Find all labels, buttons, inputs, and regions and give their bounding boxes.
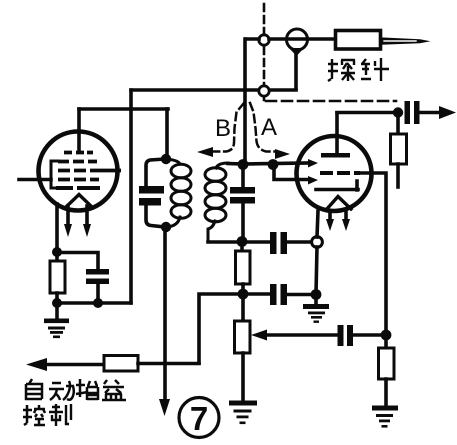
node junction2 [268, 159, 279, 170]
wire: bottom rail to left vertical [57, 301, 131, 305]
probe body [336, 31, 381, 50]
V2 plate [335, 113, 339, 153]
capacitor C4 [270, 232, 277, 254]
node jack J2 (open circle, return path) [259, 86, 269, 96]
label circled 7 [179, 398, 219, 438]
pin arrow lower [308, 176, 318, 185]
dashed path B with arrow [212, 103, 244, 152]
wire: run2 left corner down to AGC line [199, 294, 243, 363]
probe connector circle [287, 29, 308, 50]
resistor R2 [240, 241, 244, 251]
wire: run2 to cap C5 [243, 292, 270, 296]
node junction run1 [237, 236, 248, 247]
wire: junction to tube pins [243, 163, 308, 164]
wire: C5 to ground node [285, 293, 316, 297]
V1 grid row 5 [56, 186, 100, 190]
capacitor C1 (cathode bypass) [86, 269, 109, 275]
node jack J1 (open circle, probe tip path) [259, 35, 269, 45]
label 控制 [23, 404, 71, 426]
resistor R4 [384, 335, 388, 348]
svg-text:B: B [215, 115, 231, 142]
wire: coil bottom to junction [208, 240, 237, 244]
node junction plate load [393, 107, 403, 117]
V2 filament lead 2 with arrow [344, 210, 348, 221]
wire: connector ground drop [294, 55, 298, 89]
tube V1 envelope [39, 132, 118, 211]
node jack J3 (open circle) [312, 237, 323, 248]
ground G3 [229, 401, 257, 425]
pot wiper arrow [251, 330, 267, 341]
V1 filament lead with arrow [66, 206, 70, 226]
node junction center grid [238, 159, 249, 170]
inductor L2 (grid coil) [216, 163, 228, 168]
V1 grid row 2 [58, 160, 97, 164]
wire: drop to tank top [165, 109, 169, 158]
wire: cathode to bypass cap [57, 253, 98, 270]
resistor R3 (potentiometer) [241, 294, 245, 321]
resistor R5 (plate load) [396, 113, 400, 134]
pin arrow upper [308, 159, 318, 168]
wire: V1 plate lead [77, 109, 81, 151]
wire: wiper to cap C6 [266, 333, 338, 337]
label 自动增益 [26, 379, 126, 400]
inductor L1 (tank coil) [166, 159, 180, 164]
V2 filament V [326, 197, 351, 211]
node junction R1 bottom [52, 298, 62, 308]
wire: output with arrow [419, 111, 441, 115]
probe connector contact wedge [289, 48, 304, 56]
V2 cathode element [316, 181, 358, 190]
wire: V1 plate supply [79, 107, 168, 111]
V1 left bracket [51, 161, 58, 188]
wire: junction to coil top [228, 162, 243, 166]
wire: plate to output cap [337, 111, 397, 115]
wire: run1 to cap C4 [242, 240, 270, 244]
svg-text:7: 7 [190, 400, 208, 437]
wire: V1 cathode lead down [55, 204, 59, 252]
wire: jack J3 down [316, 247, 317, 294]
ground G2 [314, 294, 318, 305]
V1 grid row 3 with right stub [58, 169, 121, 173]
wire: long horizontal return to left rail [131, 88, 296, 92]
wire: C6 to junction [352, 333, 386, 337]
capacitor C3 (grid) [241, 164, 245, 187]
probe needle [381, 37, 431, 45]
wire: J1 to corner and probe connector [246, 37, 336, 41]
wire: left vertical return rail [129, 90, 133, 303]
capacitor C6 [338, 325, 344, 346]
wire: tank bottom down with arrow [163, 227, 167, 402]
V2 filament lead with arrow [328, 211, 332, 221]
wire: dashed vertical switch line top [263, 4, 266, 100]
wire: junction2 drop to lower pin [274, 164, 309, 180]
V1 plate row [64, 151, 93, 155]
V1 filament lead 2 with arrow [85, 206, 89, 226]
capacitor C7 (output) [405, 101, 411, 124]
wire: V2 cathode lead to jack J3 [317, 211, 318, 237]
ground G4 [372, 406, 398, 428]
ground G1 [55, 303, 59, 319]
node junction run2 [238, 289, 249, 300]
dashed path A with arrow [250, 103, 275, 152]
V1 cathode filament V [66, 195, 92, 208]
node junction V1 cathode [52, 247, 62, 257]
label 探针 (probe) [328, 58, 389, 81]
wire: left input stub to V1 [19, 178, 51, 182]
capacitor C5 [270, 284, 277, 305]
node junction C1 bottom [93, 298, 103, 308]
wire: vertical from corner down to node junction [243, 39, 247, 163]
V1 grid row 4 [58, 178, 99, 182]
wire: AGC line with arrow [45, 363, 104, 367]
wire: dashed horizontal line to right capacitor [266, 100, 396, 103]
tube V2 envelope [297, 136, 372, 211]
resistor R6 (AGC) [104, 356, 138, 372]
svg-text:A: A [261, 114, 277, 141]
node junction cathode ground [311, 289, 322, 300]
wire: V2 grid exit to right rail [360, 173, 386, 335]
resistor R1 (cathode bias) [55, 252, 59, 261]
node junction screen divider [381, 330, 392, 341]
wire: C4 to cathode jack [285, 240, 311, 244]
V2 grid dashed row [320, 171, 360, 175]
node junction tank bottom [161, 222, 171, 232]
node junction tank top [161, 154, 171, 164]
capacitor C2 (tank) [146, 159, 165, 186]
